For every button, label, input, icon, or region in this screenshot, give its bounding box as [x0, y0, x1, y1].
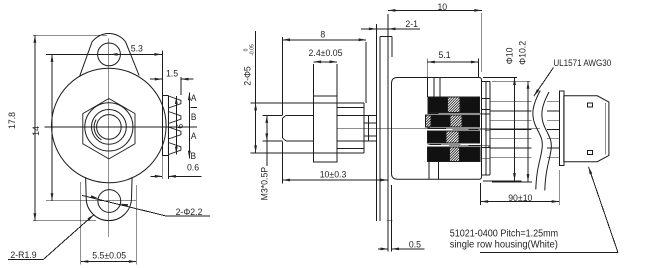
- svg-text:B: B: [191, 112, 197, 122]
- svg-text:2-1: 2-1: [405, 19, 418, 29]
- svg-text:6: 6: [174, 124, 184, 129]
- dimension 10 (body length): [388, 9, 482, 11]
- front view: shaft circle: [97, 115, 122, 140]
- connector latch window bottom: [587, 151, 592, 155]
- side view: coil lead wire in gap 1: [428, 113, 491, 115]
- dimension 17.8 (overall height): [34, 35, 36, 220]
- front view: top tab hole (2-phi2.2): [98, 43, 121, 66]
- side view: coil row 1: [428, 97, 447, 112]
- label UL1571 AWG30 with leader: [534, 68, 554, 97]
- svg-text:single row housing(White): single row housing(White): [450, 240, 558, 251]
- connector rear plate: [560, 91, 564, 166]
- svg-text:17.8: 17.8: [7, 112, 17, 129]
- front view: horizontal center line: [45, 126, 191, 128]
- side view: coil row 2: [425, 115, 431, 127]
- dimension 2.4±0.05 (gear width): [314, 61, 337, 63]
- svg-text:B: B: [190, 150, 196, 160]
- svg-text:8: 8: [320, 29, 325, 39]
- dimension phi10 (body diameter): [483, 77, 517, 79]
- connector housing 51021-0400: [564, 96, 609, 162]
- dimension phi10.2 (grommet diameter): [492, 80, 531, 82]
- dimension 6 (pin span): [175, 96, 177, 155]
- side view: rear hub lines: [482, 97, 491, 99]
- svg-text:0.5: 0.5: [409, 239, 421, 249]
- svg-text:5.1: 5.1: [438, 50, 450, 60]
- side view: coil lead wire in gap 3: [428, 144, 491, 146]
- side view: coil lead wire in gap 2: [428, 128, 491, 130]
- svg-text:14: 14: [31, 126, 41, 136]
- side view: shaft pass-through lines: [364, 122, 376, 124]
- svg-text:1.5: 1.5: [166, 68, 178, 78]
- lead wires bundle (right of break): [547, 101, 560, 103]
- side view: lead screw shaft M3 with chamfer: [286, 114, 314, 116]
- svg-text:2.4±0.05: 2.4±0.05: [309, 48, 343, 58]
- side view: shaft tip extension line (dim 8 / 10±0.3): [282, 37, 284, 115]
- side view: stator pole lines bottom: [428, 161, 430, 179]
- svg-text:-0.05: -0.05: [249, 44, 255, 56]
- front view: hex nut: [83, 99, 135, 159]
- front view: vertical center line: [108, 39, 110, 238]
- svg-text:Φ10: Φ10: [504, 48, 514, 65]
- side view: mounting flange plate: [375, 24, 377, 221]
- dimension M3*0.5P: [266, 115, 268, 166]
- side view: phi5 boss end face: [363, 103, 365, 153]
- dimension 0.5 (flange to body gap): [387, 221, 389, 252]
- svg-text:2-R1.9: 2-R1.9: [10, 250, 36, 260]
- front view: terminal pins (4 teeth): [168, 96, 181, 108]
- side view: coil row 3: [428, 131, 447, 143]
- side view: phi5 boss lines: [251, 102, 364, 104]
- lead wires bundle (left of break): [490, 101, 532, 103]
- side view: stator pole lines top: [426, 78, 428, 98]
- front view: bushing ring outer circle: [92, 110, 127, 145]
- front view: bottom hole center line / 14 extension: [46, 200, 137, 202]
- label 51021-0400 connector note with leader: [480, 252, 618, 254]
- svg-text:UL1571 AWG30: UL1571 AWG30: [553, 57, 611, 68]
- front view: bottom mounting tab outline: [86, 177, 133, 221]
- svg-text:51021-0400 Pitch=1.25mm: 51021-0400 Pitch=1.25mm: [450, 228, 559, 238]
- side view: gear disc: [314, 96, 337, 162]
- side view: rear cap / wire grommet: [482, 80, 491, 82]
- front view: motor body circle: [52, 68, 167, 183]
- front view: terminal strip: [161, 51, 163, 156]
- svg-text:10±0.3: 10±0.3: [320, 169, 347, 179]
- dimension 1.5: [150, 78, 162, 80]
- front view: top hole center line / 14 extension: [46, 53, 110, 55]
- svg-text:0.6: 0.6: [187, 162, 199, 172]
- dimension 2-phi5 with tolerance: [255, 31, 257, 153]
- dimension 8 (gear assembly length): [283, 39, 367, 41]
- dimension 10±0.3 (shaft to flange): [283, 179, 389, 181]
- dimension 0.6 (pin thickness): [161, 156, 163, 180]
- pin label leader line: [188, 93, 190, 159]
- svg-text:Φ10.2: Φ10.2: [517, 41, 527, 65]
- side view: center line: [337, 128, 540, 130]
- svg-text:A: A: [191, 131, 197, 141]
- label 2-R1.9 with leader to tab edge: [8, 259, 43, 261]
- front view: thread relief arc: [94, 120, 101, 140]
- svg-text:A: A: [191, 93, 197, 103]
- dimension 5.5±0.05 (tab width): [80, 182, 82, 265]
- side view: motor body outline phi10: [392, 78, 482, 180]
- dimension 2-1 (flange thickness): [361, 28, 420, 30]
- pin label A-bar (phase): [190, 126, 197, 128]
- svg-text:M3*0.5P: M3*0.5P: [259, 167, 269, 200]
- front view: bushing washer circle: [85, 103, 133, 151]
- side view: coil row 4: [428, 147, 450, 162]
- wire break squiggle right: [542, 92, 551, 191]
- pin label B-bar (phase): [190, 107, 197, 109]
- svg-text:5.3: 5.3: [131, 43, 143, 53]
- connector latch window top: [587, 103, 592, 107]
- coil hatch fills: [425, 97, 462, 161]
- dimension 5.3: [110, 53, 163, 55]
- svg-text:2-Φ2.2: 2-Φ2.2: [176, 206, 203, 216]
- svg-text:10: 10: [437, 1, 447, 11]
- side view: pilot hub lines: [337, 114, 376, 116]
- dimension 5.1 (coil span): [427, 61, 478, 63]
- label 2-phi2.2 with leader through bottom hole: [82, 195, 167, 216]
- svg-text:5.5±0.05: 5.5±0.05: [92, 250, 126, 260]
- dimension 90±10 (wire length): [480, 183, 482, 205]
- side view: boss step lines: [337, 107, 364, 109]
- front view: top mounting tab outline: [80, 34, 139, 77]
- svg-text:2-Φ5: 2-Φ5: [242, 66, 252, 86]
- dimension 14 (hole centers): [51, 54, 53, 200]
- wire break squiggle left: [533, 91, 542, 190]
- svg-text:90±10: 90±10: [508, 192, 532, 202]
- front view: bottom tab hole (2-phi2.2): [98, 190, 121, 213]
